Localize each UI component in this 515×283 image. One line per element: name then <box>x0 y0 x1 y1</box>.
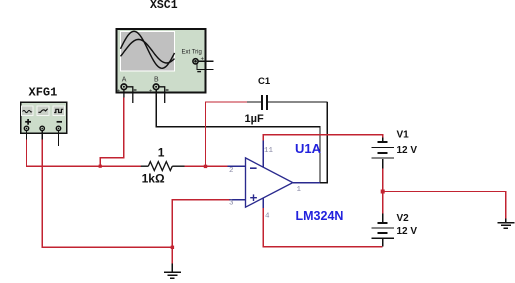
wire mid junction to right ground (red) <box>383 192 506 219</box>
XFG1 terminal + <box>24 126 28 130</box>
svg-text:V1: V1 <box>397 130 410 141</box>
wire mid junction to V2 (red) <box>382 192 384 214</box>
svg-text:B: B <box>154 76 159 83</box>
channel A minus pin lead <box>127 87 133 103</box>
XFG1 plus label <box>25 119 31 125</box>
wire pin11 to V1 (red) <box>263 135 383 141</box>
op-amp pin 4 lead <box>262 198 264 208</box>
channel A plus pin lead <box>123 90 125 98</box>
wire feedback riser (red) <box>206 102 248 166</box>
XFG1 square-wave button glyph <box>54 109 63 112</box>
battery V1 <box>371 138 394 169</box>
channel B minus pin lead <box>159 87 165 103</box>
op-amp pin 11 lead <box>262 141 264 168</box>
ground GND2 <box>498 218 515 228</box>
battery V2 <box>371 214 394 247</box>
output node black link <box>320 182 327 184</box>
channel A terminal <box>121 84 127 90</box>
svg-text:A: A <box>122 76 127 83</box>
function generator XFG1 body <box>21 102 67 133</box>
wire pin4 to V2 bottom (red) <box>263 208 383 247</box>
wire ground node down (red) <box>171 247 173 263</box>
ground GND1 <box>164 263 181 278</box>
wire non-inverting input to ground node (red) <box>172 200 229 248</box>
XFG1 terminal common <box>40 126 44 130</box>
XFG1 pin leads <box>27 131 59 146</box>
svg-text:U1A: U1A <box>295 141 322 156</box>
scope trace channel A <box>121 31 175 68</box>
wire V1 minus to mid junction (red) <box>382 169 384 192</box>
resistor R1 <box>141 162 185 171</box>
scope trace channel B <box>121 39 175 63</box>
op-amp plus sign <box>250 194 257 201</box>
svg-text:3: 3 <box>229 200 234 208</box>
svg-text:V2: V2 <box>397 213 410 224</box>
wire XFG1 common down and right to ground node (red) <box>42 140 172 248</box>
XFG1 sine button <box>21 106 64 115</box>
junction dot A/XFG+ <box>99 165 102 168</box>
junction dot ground node <box>171 246 174 249</box>
wire scope B to op-amp output (black) <box>156 90 320 183</box>
wire XFG1 + output to resistor (red) <box>27 140 141 167</box>
Ext Trig terminal <box>193 59 198 64</box>
XFG1 minus label <box>57 121 62 123</box>
Ext Trig pin stubs <box>197 61 214 69</box>
svg-text:4: 4 <box>265 212 270 220</box>
svg-text:1: 1 <box>158 146 165 160</box>
op-amp inverting input lead <box>228 165 246 167</box>
op-amp minus sign <box>250 167 257 169</box>
svg-text:LM324N: LM324N <box>296 209 344 223</box>
svg-text:C1: C1 <box>258 76 271 87</box>
op-amp output lead <box>293 182 320 184</box>
oscilloscope XSC1 body <box>117 29 206 93</box>
wire C1 right down to output (black) <box>319 102 327 183</box>
XFG1 terminal - <box>56 126 60 130</box>
op-amp U1A triangle <box>246 158 293 207</box>
XFG1 triangle-wave button glyph <box>38 109 47 113</box>
svg-text:2: 2 <box>229 167 234 175</box>
svg-text:1kΩ: 1kΩ <box>142 172 165 186</box>
channel B terminal <box>153 84 159 90</box>
junction dot mid supply <box>381 190 385 194</box>
svg-text:Ext Trig: Ext Trig <box>182 50 202 56</box>
svg-text:1µF: 1µF <box>245 113 264 125</box>
wire scope A branch (red) <box>100 98 124 167</box>
junction dot inverting node <box>204 165 207 168</box>
op-amp non-inverting input lead <box>230 199 246 201</box>
svg-text:12 V: 12 V <box>397 145 418 156</box>
svg-text:1: 1 <box>297 186 302 194</box>
svg-text:XFG1: XFG1 <box>29 85 58 99</box>
capacitor C1 <box>247 95 327 110</box>
wire resistor to inverting input node (red) <box>185 165 228 167</box>
svg-text:11: 11 <box>264 147 274 155</box>
svg-text:XSC1: XSC1 <box>150 0 178 12</box>
svg-text:12 V: 12 V <box>397 226 418 237</box>
